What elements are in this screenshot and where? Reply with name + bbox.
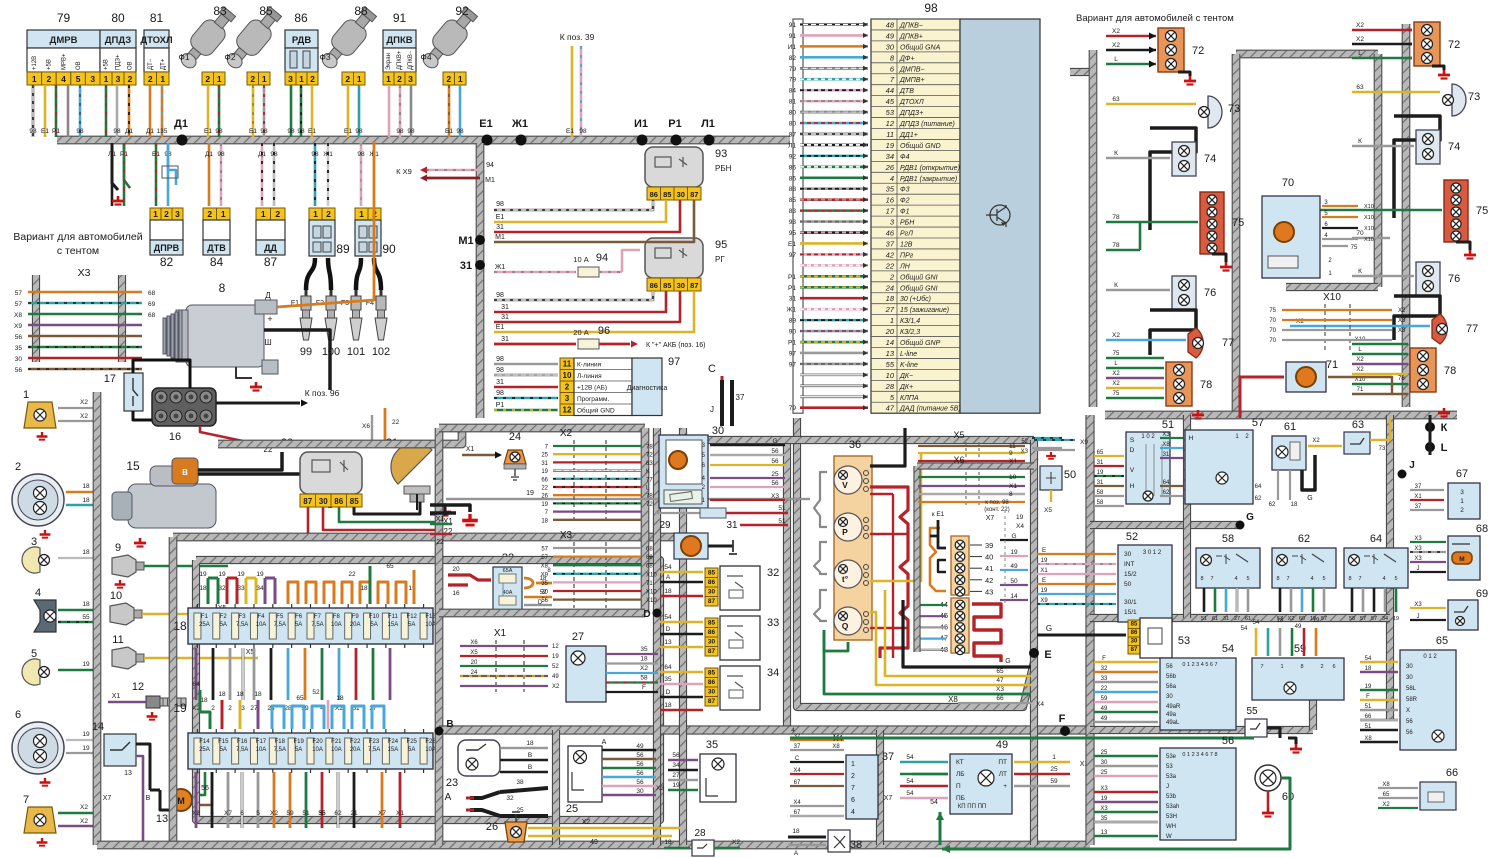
svg-text:Е1: Е1 bbox=[496, 324, 505, 331]
svg-text:49: 49 bbox=[1010, 563, 1018, 570]
svg-text:19: 19 bbox=[526, 490, 534, 497]
svg-text:98: 98 bbox=[496, 390, 504, 397]
svg-text:ДПДЗ: ДПДЗ bbox=[105, 35, 131, 46]
svg-text:62: 62 bbox=[1163, 490, 1170, 496]
svg-text:66: 66 bbox=[1365, 714, 1372, 720]
svg-text:INT: INT bbox=[1124, 561, 1135, 568]
svg-text:57: 57 bbox=[1371, 616, 1377, 622]
svg-text:Х7: Х7 bbox=[378, 810, 386, 817]
svg-text:72: 72 bbox=[1448, 39, 1460, 51]
svg-text:49aL: 49aL bbox=[1166, 720, 1180, 726]
svg-text:62: 62 bbox=[1255, 496, 1262, 502]
svg-text:ДМПВ−: ДМПВ− bbox=[899, 66, 925, 73]
svg-text:25: 25 bbox=[516, 807, 524, 814]
svg-text:92: 92 bbox=[789, 153, 797, 160]
svg-text:ПДЗ+: ПДЗ+ bbox=[115, 54, 121, 70]
svg-text:98: 98 bbox=[215, 128, 223, 135]
svg-text:Х2: Х2 bbox=[1288, 616, 1295, 622]
svg-text:32: 32 bbox=[506, 795, 514, 802]
svg-text:34: 34 bbox=[886, 152, 894, 161]
svg-text:Х10: Х10 bbox=[646, 598, 657, 604]
svg-text:ДПКВ+: ДПКВ+ bbox=[899, 33, 923, 40]
svg-text:F: F bbox=[642, 684, 646, 691]
svg-text:Д1: Д1 bbox=[258, 151, 266, 158]
svg-text:Общий GNI: Общий GNI bbox=[900, 273, 938, 281]
svg-text:58: 58 bbox=[1349, 616, 1355, 622]
svg-text:37: 37 bbox=[886, 239, 895, 248]
svg-text:14: 14 bbox=[92, 721, 104, 733]
svg-text:+12В: +12В bbox=[32, 56, 38, 70]
svg-text:98: 98 bbox=[579, 128, 587, 135]
svg-text:45: 45 bbox=[886, 97, 895, 106]
svg-text:Х2: Х2 bbox=[192, 810, 200, 817]
svg-text:2: 2 bbox=[446, 74, 451, 84]
svg-text:87: 87 bbox=[690, 190, 698, 199]
svg-text:75: 75 bbox=[1113, 391, 1120, 397]
svg-text:2: 2 bbox=[228, 705, 232, 712]
svg-text:Х6: Х6 bbox=[362, 423, 370, 430]
svg-text:18: 18 bbox=[360, 585, 368, 592]
svg-text:31: 31 bbox=[460, 260, 472, 272]
svg-text:+5В: +5В bbox=[47, 59, 53, 70]
svg-text:27: 27 bbox=[672, 772, 680, 779]
svg-text:66: 66 bbox=[541, 477, 548, 483]
svg-text:73: 73 bbox=[1228, 103, 1240, 115]
svg-text:19: 19 bbox=[1041, 558, 1048, 564]
svg-text:79: 79 bbox=[57, 11, 71, 25]
svg-text:18: 18 bbox=[1277, 618, 1284, 624]
svg-text:ДПДЗ (питание): ДПДЗ (питание) bbox=[899, 121, 955, 128]
svg-text:69: 69 bbox=[1476, 588, 1488, 600]
svg-text:Л1: Л1 bbox=[701, 118, 715, 130]
svg-text:Х3: Х3 bbox=[1021, 449, 1029, 455]
svg-text:89: 89 bbox=[789, 318, 797, 325]
svg-text:14: 14 bbox=[1010, 593, 1018, 600]
svg-text:H: H bbox=[1189, 435, 1194, 442]
svg-text:35: 35 bbox=[15, 345, 23, 352]
svg-text:57: 57 bbox=[1321, 616, 1327, 622]
svg-text:Х2: Х2 bbox=[1112, 28, 1120, 35]
svg-text:В: В bbox=[528, 764, 532, 771]
svg-text:70: 70 bbox=[1356, 230, 1364, 237]
svg-text:95: 95 bbox=[789, 230, 797, 237]
svg-text:17: 17 bbox=[104, 373, 116, 385]
svg-text:7,5А: 7,5А bbox=[236, 622, 248, 628]
svg-text:25: 25 bbox=[1101, 750, 1108, 756]
svg-text:Х8: Х8 bbox=[541, 564, 549, 570]
svg-text:К: К bbox=[1114, 282, 1118, 289]
svg-text:58R: 58R bbox=[1406, 697, 1418, 703]
svg-text:1: 1 bbox=[1280, 664, 1283, 670]
svg-text:75: 75 bbox=[1113, 351, 1120, 357]
svg-text:85: 85 bbox=[789, 197, 797, 204]
svg-text:+: + bbox=[1003, 783, 1007, 790]
svg-text:6: 6 bbox=[851, 797, 855, 804]
svg-text:19: 19 bbox=[1097, 470, 1104, 476]
svg-text:7: 7 bbox=[1286, 576, 1289, 582]
svg-text:9: 9 bbox=[115, 542, 121, 554]
svg-text:11: 11 bbox=[886, 130, 894, 139]
svg-text:10А: 10А bbox=[331, 622, 342, 628]
svg-text:J: J bbox=[1417, 566, 1420, 572]
svg-text:Х2: Х2 bbox=[80, 413, 88, 420]
svg-text:85: 85 bbox=[708, 670, 716, 677]
svg-text:РБН: РБН bbox=[715, 164, 732, 173]
svg-text:Е1: Е1 bbox=[496, 214, 505, 221]
svg-text:22: 22 bbox=[885, 261, 895, 270]
svg-text:Х3: Х3 bbox=[1398, 318, 1406, 324]
svg-text:92: 92 bbox=[455, 4, 469, 18]
svg-text:33: 33 bbox=[237, 585, 245, 592]
svg-text:65: 65 bbox=[386, 563, 394, 570]
svg-text:57: 57 bbox=[1252, 417, 1264, 429]
svg-text:Программ.: Программ. bbox=[577, 396, 609, 403]
svg-text:6: 6 bbox=[1332, 664, 1335, 670]
svg-text:6: 6 bbox=[15, 709, 21, 721]
svg-text:10: 10 bbox=[563, 371, 572, 380]
svg-text:Ж1: Ж1 bbox=[495, 264, 505, 271]
svg-text:68: 68 bbox=[646, 547, 653, 553]
svg-text:30: 30 bbox=[1131, 639, 1138, 645]
svg-text:97: 97 bbox=[789, 350, 797, 357]
svg-text:М: М bbox=[177, 796, 185, 806]
svg-text:1: 1 bbox=[890, 316, 894, 325]
svg-text:2: 2 bbox=[164, 209, 169, 219]
svg-text:49aR: 49aR bbox=[1166, 704, 1181, 710]
svg-text:82: 82 bbox=[789, 55, 797, 62]
svg-text:87: 87 bbox=[708, 648, 716, 655]
svg-text:98: 98 bbox=[456, 128, 464, 135]
svg-text:G: G bbox=[1005, 658, 1010, 665]
svg-text:14: 14 bbox=[886, 338, 894, 347]
svg-text:20 А: 20 А bbox=[573, 328, 588, 337]
svg-text:Х8: Х8 bbox=[948, 695, 958, 704]
svg-text:ОВ: ОВ bbox=[76, 61, 82, 70]
svg-text:65: 65 bbox=[996, 668, 1004, 675]
svg-text:10: 10 bbox=[1009, 474, 1017, 481]
svg-text:20: 20 bbox=[885, 327, 895, 336]
svg-text:ЛТ: ЛТ bbox=[999, 771, 1007, 778]
svg-text:49: 49 bbox=[1295, 624, 1302, 630]
svg-text:4: 4 bbox=[851, 809, 855, 816]
svg-text:ДТ−: ДТ− bbox=[148, 58, 154, 70]
svg-text:75: 75 bbox=[1269, 308, 1276, 314]
svg-text:ДД: ДД bbox=[264, 243, 277, 253]
svg-text:31: 31 bbox=[1097, 460, 1104, 466]
svg-text:КЗ/2,3: КЗ/2,3 bbox=[900, 329, 920, 336]
svg-text:Д1: Д1 bbox=[146, 128, 154, 135]
svg-text:30: 30 bbox=[708, 639, 716, 646]
svg-text:28: 28 bbox=[885, 382, 895, 391]
svg-text:19: 19 bbox=[1041, 588, 1048, 594]
svg-text:F14: F14 bbox=[199, 739, 210, 745]
svg-text:64: 64 bbox=[1255, 484, 1262, 490]
svg-text:31: 31 bbox=[496, 224, 504, 231]
svg-text:86: 86 bbox=[708, 579, 716, 586]
svg-text:В: В bbox=[446, 719, 453, 730]
svg-text:F3: F3 bbox=[239, 614, 247, 620]
svg-text:3: 3 bbox=[565, 394, 570, 403]
svg-text:Х4: Х4 bbox=[1036, 701, 1044, 708]
svg-text:Х10: Х10 bbox=[1364, 226, 1374, 232]
svg-text:1: 1 bbox=[104, 74, 109, 84]
svg-text:51: 51 bbox=[1201, 616, 1207, 622]
svg-text:30: 30 bbox=[886, 42, 895, 51]
svg-text:18: 18 bbox=[664, 839, 672, 846]
svg-text:К поз. 96: К поз. 96 bbox=[305, 388, 340, 398]
svg-text:18: 18 bbox=[1291, 502, 1298, 508]
svg-text:С: С bbox=[795, 756, 800, 762]
svg-text:Е: Е bbox=[1042, 578, 1046, 584]
svg-text:93: 93 bbox=[715, 148, 727, 160]
svg-text:КТ: КТ bbox=[956, 759, 964, 766]
svg-text:Х2: Х2 bbox=[1382, 802, 1390, 808]
svg-text:54: 54 bbox=[664, 564, 672, 571]
svg-text:54: 54 bbox=[664, 614, 672, 621]
svg-text:2: 2 bbox=[128, 74, 133, 84]
svg-text:А: А bbox=[794, 850, 799, 857]
svg-text:30: 30 bbox=[1124, 551, 1132, 558]
svg-text:4: 4 bbox=[1310, 576, 1313, 582]
svg-text:90: 90 bbox=[382, 242, 396, 256]
svg-text:Х3: Х3 bbox=[1414, 602, 1422, 608]
svg-text:94: 94 bbox=[596, 252, 608, 264]
svg-text:7: 7 bbox=[851, 785, 855, 792]
svg-text:30 (+Uбс): 30 (+Uбс) bbox=[900, 295, 931, 303]
svg-text:Х10: Х10 bbox=[1364, 215, 1374, 221]
svg-text:39: 39 bbox=[985, 541, 993, 550]
svg-text:63: 63 bbox=[1112, 96, 1120, 103]
svg-text:23: 23 bbox=[446, 777, 458, 789]
svg-text:19: 19 bbox=[218, 571, 226, 578]
svg-text:7: 7 bbox=[1358, 576, 1361, 582]
svg-text:Е1: Е1 bbox=[445, 128, 453, 135]
svg-text:F10: F10 bbox=[369, 614, 380, 620]
svg-text:13: 13 bbox=[124, 770, 132, 777]
svg-text:42: 42 bbox=[886, 250, 895, 259]
svg-text:F17: F17 bbox=[256, 739, 267, 745]
svg-text:2: 2 bbox=[275, 209, 280, 219]
svg-text:84: 84 bbox=[789, 88, 797, 95]
svg-text:27: 27 bbox=[885, 305, 895, 314]
svg-text:5А: 5А bbox=[370, 622, 377, 628]
svg-text:S: S bbox=[1130, 437, 1135, 444]
svg-text:60: 60 bbox=[1299, 616, 1305, 622]
svg-text:2: 2 bbox=[310, 74, 315, 84]
svg-text:86: 86 bbox=[789, 164, 797, 171]
svg-text:52: 52 bbox=[312, 689, 320, 696]
svg-text:135: 135 bbox=[157, 128, 168, 135]
svg-text:Х2: Х2 bbox=[1356, 367, 1364, 373]
svg-text:11: 11 bbox=[1009, 443, 1016, 450]
svg-text:2: 2 bbox=[1320, 664, 1323, 670]
svg-text:Е1: Е1 bbox=[152, 151, 160, 158]
svg-text:87: 87 bbox=[264, 255, 278, 269]
svg-text:3: 3 bbox=[90, 74, 95, 84]
svg-text:18: 18 bbox=[886, 294, 895, 303]
svg-text:71: 71 bbox=[646, 581, 653, 587]
svg-text:30: 30 bbox=[636, 788, 644, 795]
svg-text:37: 37 bbox=[1415, 504, 1422, 510]
svg-text:Экран: Экран bbox=[386, 53, 392, 70]
svg-text:Е1: Е1 bbox=[788, 241, 796, 248]
svg-text:60: 60 bbox=[1282, 791, 1294, 803]
svg-text:55: 55 bbox=[1246, 706, 1258, 717]
svg-text:15А: 15А bbox=[388, 747, 399, 753]
svg-text:Общий GND: Общий GND bbox=[900, 142, 941, 150]
svg-text:56a: 56a bbox=[1166, 684, 1177, 690]
svg-text:91: 91 bbox=[789, 22, 797, 29]
svg-text:Х3: Х3 bbox=[771, 493, 779, 500]
svg-text:78: 78 bbox=[1444, 365, 1456, 377]
svg-text:1: 1 bbox=[313, 209, 318, 219]
svg-text:73: 73 bbox=[1379, 446, 1386, 452]
svg-text:31: 31 bbox=[501, 314, 509, 321]
svg-text:Х3: Х3 bbox=[996, 686, 1004, 693]
svg-text:25А: 25А bbox=[199, 622, 210, 628]
svg-text:L: L bbox=[1441, 442, 1448, 454]
svg-text:к Е1: к Е1 bbox=[932, 511, 945, 518]
svg-text:Х8: Х8 bbox=[1162, 442, 1170, 448]
svg-text:К-линия: К-линия bbox=[577, 362, 602, 369]
svg-text:J: J bbox=[710, 405, 714, 414]
svg-text:22: 22 bbox=[541, 486, 548, 492]
svg-text:18: 18 bbox=[173, 619, 187, 633]
svg-text:Х2: Х2 bbox=[552, 684, 560, 690]
svg-text:34: 34 bbox=[256, 585, 264, 592]
svg-text:78: 78 bbox=[646, 445, 653, 451]
svg-text:ДК−: ДК− bbox=[899, 373, 913, 380]
svg-text:Д1: Д1 bbox=[205, 151, 213, 158]
svg-text:L: L bbox=[1358, 50, 1362, 57]
svg-text:7,5А: 7,5А bbox=[311, 622, 323, 628]
svg-text:98: 98 bbox=[29, 128, 37, 135]
svg-text:78: 78 bbox=[1200, 379, 1212, 391]
svg-text:97: 97 bbox=[789, 252, 797, 259]
svg-text:86: 86 bbox=[294, 11, 308, 25]
svg-text:98: 98 bbox=[924, 1, 938, 15]
svg-text:Р1: Р1 bbox=[496, 402, 505, 409]
svg-text:Х4: Х4 bbox=[1016, 523, 1024, 530]
svg-text:49: 49 bbox=[636, 743, 644, 750]
svg-text:59: 59 bbox=[1101, 696, 1108, 702]
svg-text:8: 8 bbox=[219, 281, 226, 295]
svg-text:К "+" АКБ (поз. 16): К "+" АКБ (поз. 16) bbox=[646, 342, 705, 349]
svg-text:Х2: Х2 bbox=[582, 819, 591, 826]
svg-text:Х2: Х2 bbox=[1398, 308, 1406, 314]
svg-text:Х4: Х4 bbox=[793, 800, 801, 806]
svg-text:19: 19 bbox=[1313, 618, 1320, 624]
svg-text:22: 22 bbox=[348, 571, 356, 578]
svg-text:53: 53 bbox=[1166, 764, 1173, 770]
svg-text:К: К bbox=[1358, 268, 1362, 275]
svg-text:РгЛ: РгЛ bbox=[900, 231, 913, 238]
svg-text:10А: 10А bbox=[425, 747, 436, 753]
svg-text:Х2: Х2 bbox=[640, 665, 648, 672]
svg-text:10А: 10А bbox=[312, 747, 323, 753]
svg-text:J: J bbox=[1166, 784, 1169, 790]
svg-text:40А: 40А bbox=[503, 590, 513, 596]
svg-text:85: 85 bbox=[259, 4, 273, 18]
svg-text:Х3: Х3 bbox=[1414, 546, 1422, 552]
svg-text:54: 54 bbox=[930, 799, 938, 806]
svg-text:+12В (АБ): +12В (АБ) bbox=[577, 385, 607, 392]
svg-text:49: 49 bbox=[996, 739, 1008, 751]
svg-text:D: D bbox=[1130, 447, 1135, 454]
svg-text:80: 80 bbox=[111, 11, 125, 25]
svg-text:18: 18 bbox=[664, 588, 672, 595]
svg-text:Х2: Х2 bbox=[732, 839, 740, 846]
svg-text:68: 68 bbox=[646, 564, 653, 570]
svg-text:Х10: Х10 bbox=[646, 572, 657, 578]
svg-text:54: 54 bbox=[906, 790, 914, 797]
svg-text:56: 56 bbox=[636, 752, 644, 759]
svg-text:13: 13 bbox=[664, 639, 672, 646]
svg-text:2: 2 bbox=[326, 209, 331, 219]
svg-text:54: 54 bbox=[906, 778, 914, 785]
svg-text:10А: 10А bbox=[425, 622, 436, 628]
svg-text:18: 18 bbox=[792, 828, 800, 835]
svg-text:ДПКВ−: ДПКВ− bbox=[408, 50, 414, 70]
svg-text:76: 76 bbox=[1204, 287, 1216, 299]
svg-text:Л1: Л1 bbox=[788, 142, 796, 149]
svg-text:93: 93 bbox=[789, 219, 797, 226]
svg-text:Ф4: Ф4 bbox=[900, 154, 910, 161]
svg-text:Х8: Х8 bbox=[832, 744, 840, 750]
svg-text:42: 42 bbox=[985, 576, 993, 585]
svg-text:1: 1 bbox=[386, 74, 391, 84]
svg-text:75: 75 bbox=[1476, 205, 1488, 217]
svg-text:0 1 2: 0 1 2 bbox=[1423, 654, 1437, 660]
svg-text:56: 56 bbox=[771, 480, 779, 487]
svg-text:+5В: +5В bbox=[103, 59, 109, 70]
svg-text:М1: М1 bbox=[495, 234, 505, 241]
svg-text:Д1: Д1 bbox=[174, 118, 188, 130]
svg-text:1: 1 bbox=[32, 74, 37, 84]
svg-text:97: 97 bbox=[668, 356, 680, 368]
svg-text:86: 86 bbox=[708, 629, 716, 636]
svg-text:G: G bbox=[1246, 512, 1254, 523]
svg-text:F12: F12 bbox=[407, 614, 418, 620]
svg-text:98: 98 bbox=[287, 128, 295, 135]
svg-text:53ah: 53ah bbox=[1166, 804, 1179, 810]
svg-text:F: F bbox=[1102, 656, 1106, 662]
svg-text:Вариант для автомобилей с тент: Вариант для автомобилей с тентом bbox=[1076, 13, 1234, 24]
svg-text:56b: 56b bbox=[1166, 674, 1177, 680]
svg-text:32: 32 bbox=[1101, 666, 1108, 672]
svg-text:98: 98 bbox=[496, 356, 504, 363]
svg-text:58: 58 bbox=[1097, 490, 1104, 496]
svg-text:56: 56 bbox=[636, 761, 644, 768]
svg-text:5А: 5А bbox=[295, 622, 302, 628]
svg-text:12: 12 bbox=[552, 644, 559, 650]
svg-text:Х7: Х7 bbox=[986, 515, 995, 522]
svg-text:Ш: Ш bbox=[264, 338, 271, 347]
svg-text:0 1 2 3 4 6 7 8: 0 1 2 3 4 6 7 8 bbox=[1182, 752, 1217, 758]
svg-text:59: 59 bbox=[286, 810, 294, 817]
svg-text:56: 56 bbox=[15, 334, 23, 341]
svg-text:Х3: Х3 bbox=[560, 530, 573, 541]
svg-text:5: 5 bbox=[1322, 576, 1325, 582]
svg-text:ДПРВ: ДПРВ bbox=[154, 243, 180, 253]
svg-text:50: 50 bbox=[1010, 578, 1018, 585]
svg-text:51: 51 bbox=[778, 518, 786, 525]
svg-text:75: 75 bbox=[1351, 245, 1358, 251]
svg-text:Х2: Х2 bbox=[1112, 42, 1120, 49]
svg-text:Х2: Х2 bbox=[1112, 332, 1120, 339]
svg-text:3: 3 bbox=[408, 74, 413, 84]
svg-text:85: 85 bbox=[663, 190, 671, 199]
